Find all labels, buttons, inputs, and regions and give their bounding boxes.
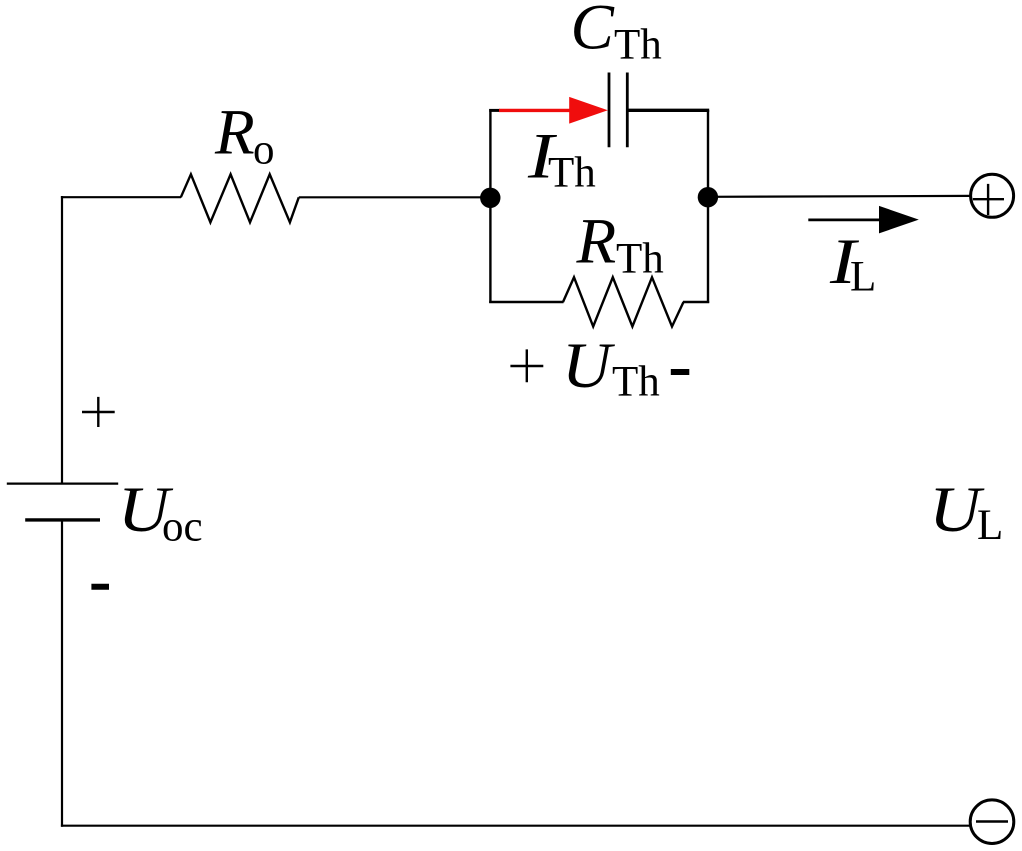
- svg-text:R: R: [576, 206, 617, 278]
- battery minus polarity mark: [91, 584, 109, 590]
- wire: black stub at top-left corner of RC loop: [489, 109, 500, 112]
- svg-text:U: U: [562, 331, 615, 402]
- battery plus polarity mark: [82, 397, 115, 427]
- current ITh red arrow shaft: [499, 109, 571, 112]
- positive output terminal circle: [971, 174, 1014, 217]
- wire: top rail, left vertical to Ro: [61, 196, 181, 198]
- battery Uoc long plate (+): [7, 483, 118, 485]
- current ITh red arrow head: [569, 97, 608, 124]
- svg-text:L: L: [977, 502, 1003, 549]
- svg-text:oc: oc: [162, 503, 203, 550]
- wire: capacitor right plate to right branch: [627, 109, 709, 112]
- wire: left vertical (bottom half, Uoc - to bottom rail): [61, 519, 63, 827]
- label UTh minus sign: [671, 369, 690, 375]
- positive terminal plus sign: [973, 184, 1004, 215]
- wire: right branch vertical (node B up to RC loop): [707, 110, 709, 303]
- svg-text:R: R: [214, 97, 255, 169]
- svg-text:Th: Th: [548, 150, 596, 197]
- wire: bottom branch left (node A down to RTh): [489, 301, 563, 303]
- wire: node B to positive terminal: [708, 195, 971, 198]
- resistor RTh zigzag: [563, 277, 684, 326]
- node B junction dot: [698, 187, 718, 207]
- wire: bottom rail to negative terminal: [61, 825, 971, 827]
- negative terminal minus sign: [976, 820, 1008, 823]
- capacitor CTh left plate: [608, 73, 611, 148]
- svg-text:L: L: [850, 254, 876, 301]
- node A junction dot: [480, 188, 500, 208]
- current IL arrow head: [879, 206, 919, 234]
- svg-text:Th: Th: [614, 21, 662, 68]
- resistor Ro zigzag: [181, 174, 299, 222]
- svg-text:Th: Th: [616, 236, 664, 283]
- svg-text:C: C: [571, 0, 615, 64]
- battery Uoc short plate (-): [25, 518, 100, 521]
- capacitor CTh right plate: [626, 73, 629, 148]
- svg-text:Th: Th: [612, 359, 660, 406]
- current IL arrow shaft: [808, 218, 881, 221]
- wire: left branch vertical (node A up to RC loop): [489, 109, 491, 303]
- wire: Ro to node A: [299, 196, 490, 198]
- wire: left vertical (top half, Uoc + to Ro): [61, 196, 63, 484]
- svg-text:o: o: [253, 127, 275, 174]
- label UTh plus sign: [510, 349, 543, 382]
- wire: bottom branch right (RTh to node B): [683, 301, 709, 303]
- negative output terminal circle: [970, 800, 1014, 844]
